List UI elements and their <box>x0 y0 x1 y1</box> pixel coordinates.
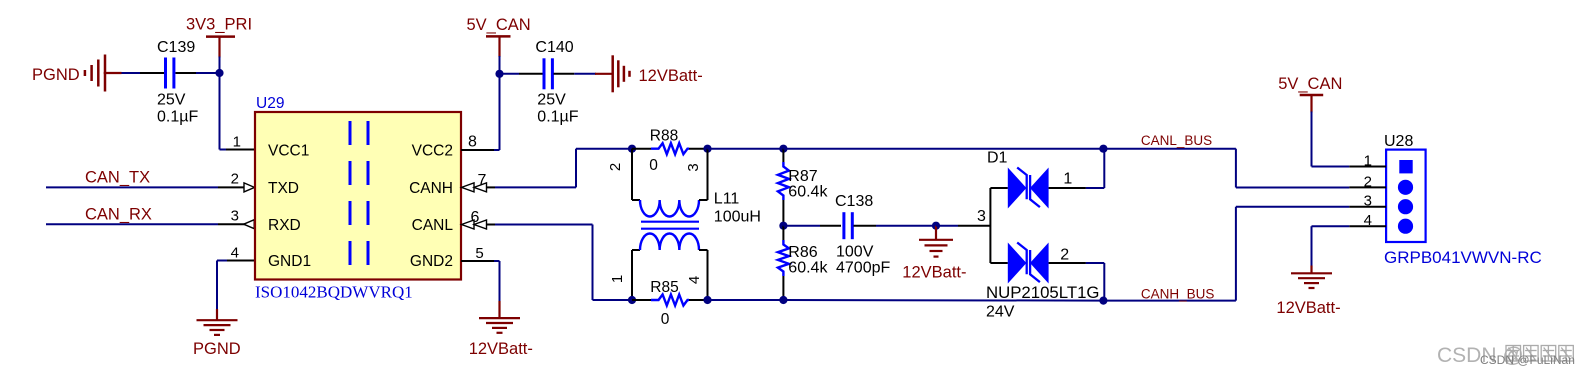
svg-text:C140: C140 <box>535 39 573 56</box>
pin name GND1 <box>268 253 311 270</box>
svg-text:3: 3 <box>977 208 986 225</box>
op-amp U29 body (ISO1042 transceiver) <box>255 112 461 280</box>
net label 3V3_PRI <box>186 16 252 34</box>
junction node A <box>215 69 223 77</box>
label C138 <box>835 193 873 210</box>
pin name RXD <box>268 217 301 234</box>
svg-text:2: 2 <box>231 171 239 188</box>
value D1 24V <box>986 304 1015 321</box>
svg-text:2: 2 <box>607 163 624 171</box>
connector U28 body <box>1386 150 1426 242</box>
pin 2 input arrow <box>244 183 255 192</box>
pin name GND2 <box>410 253 453 270</box>
wire GND2 pin 5 to ground <box>461 261 500 318</box>
label R87 <box>788 168 817 185</box>
wire mid node to C138 <box>783 225 841 227</box>
pin number 1 (U29 VCC1) <box>233 134 241 151</box>
value R87 60.4k <box>788 184 828 201</box>
net label 12VBatt- (under GND2) <box>469 340 533 358</box>
pin name CANL <box>412 217 454 234</box>
U28 pin 2 stub <box>1349 186 1386 188</box>
value R85 0 <box>661 311 670 328</box>
pin number 5 (U29 GND2) <box>475 245 483 262</box>
pin number 1 (U28) <box>1364 153 1372 170</box>
wire node B down to pin 8 VCC2 <box>461 74 500 150</box>
svg-text:CAN_TX: CAN_TX <box>85 169 150 187</box>
wire net CANL_BUS <box>783 149 1349 188</box>
inductor L11 common-mode choke <box>632 149 708 300</box>
svg-text:12VBatt-: 12VBatt- <box>1276 299 1340 317</box>
wire node A to pin 1 VCC1 <box>220 73 256 150</box>
svg-text:12VBatt-: 12VBatt- <box>639 67 703 85</box>
capacitor C138 <box>844 212 852 239</box>
junction choke pin 3 node <box>703 145 711 153</box>
pin name TXD <box>268 180 299 197</box>
U28 pin 2 contact <box>1398 180 1413 195</box>
power ground symbol PGND (left) <box>85 55 122 92</box>
svg-text:25V: 25V <box>537 91 566 108</box>
pin 6 bidirectional arrows <box>462 220 487 229</box>
wire C138 to ground node <box>854 225 937 227</box>
wire node B to C140 <box>500 73 544 75</box>
pin 7 bidirectional arrows <box>462 183 487 192</box>
svg-text:GRPB041VWVN-RC: GRPB041VWVN-RC <box>1384 248 1542 267</box>
svg-text:0: 0 <box>661 311 670 328</box>
pin number 6 (U29 CANL) <box>471 209 480 226</box>
value L11 100uH <box>714 209 761 226</box>
transistor D1 common lead <box>989 188 991 263</box>
net label CAN_RX <box>85 206 152 224</box>
svg-text:C139: C139 <box>157 39 195 56</box>
pin number 3 (D1) <box>977 208 986 225</box>
svg-text:CSDN @FuLiNan: CSDN @FuLiNan <box>1480 353 1575 367</box>
wire C140 to 12VBatt- <box>554 73 613 75</box>
U28 pin 1 contact (square) <box>1399 160 1412 173</box>
net label CANL_BUS <box>1141 133 1212 148</box>
part name NUP2105LT1G <box>986 283 1100 302</box>
pin number 7 (U29 CANH) <box>478 172 487 189</box>
wire CANL to choke bottom row <box>487 225 632 301</box>
value C138 4700pF <box>836 260 890 277</box>
svg-text:VCC1: VCC1 <box>268 143 309 160</box>
net label 12VBatt- (top) <box>639 67 703 85</box>
svg-text:R85: R85 <box>650 279 678 296</box>
wire net CAN_RX <box>46 223 245 225</box>
wire U28 pin 4 to ground <box>1312 226 1350 273</box>
svg-text:8: 8 <box>468 134 477 151</box>
power symbol 5V_CAN (right) <box>1300 95 1324 113</box>
U28 pin 4 stub <box>1349 225 1386 227</box>
svg-text:CANH_BUS: CANH_BUS <box>1141 287 1215 302</box>
svg-text:3V3_PRI: 3V3_PRI <box>186 16 252 34</box>
svg-text:1: 1 <box>609 275 626 283</box>
pin number 2 (D1) <box>1060 247 1069 264</box>
svg-text:24V: 24V <box>986 304 1015 321</box>
svg-text:U29: U29 <box>256 95 284 112</box>
junction R86 bottom <box>779 296 787 304</box>
designator U29 <box>256 95 284 112</box>
pin name VCC2 <box>412 143 453 160</box>
U28 pin 3 stub <box>1349 206 1386 208</box>
value R86 60.4k <box>788 260 828 277</box>
pin number 1 (D1) <box>1063 171 1072 188</box>
pin number 4 (U28) <box>1364 212 1372 229</box>
net label 12VBatt- (mid) <box>902 264 966 282</box>
junction ground tap node <box>932 222 940 230</box>
pin number 4 (U29 GND1) <box>231 245 239 262</box>
wire D1 pin 1 to CANL_BUS <box>1086 149 1104 188</box>
svg-text:60.4k: 60.4k <box>788 184 828 201</box>
svg-text:CANH: CANH <box>409 180 453 197</box>
net label PGND (left) <box>32 66 80 84</box>
svg-text:4: 4 <box>231 245 239 262</box>
wire 5V_CAN to node B <box>499 56 501 74</box>
label R85 <box>650 279 678 296</box>
ground symbol 12VBatt- (right) <box>1291 273 1332 288</box>
svg-text:TXD: TXD <box>268 180 299 197</box>
svg-text:1: 1 <box>1063 171 1072 188</box>
svg-text:R87: R87 <box>788 168 817 185</box>
svg-text:R86: R86 <box>788 244 817 261</box>
wire ground node to D1 pin 3 <box>936 225 990 227</box>
pin number 3 (U28) <box>1364 193 1372 210</box>
wire C139 to node A <box>176 72 220 74</box>
part name GRPB041VWVN-RC <box>1384 248 1542 267</box>
net label 12VBatt- (right) <box>1276 299 1340 317</box>
designator U28 <box>1384 133 1413 150</box>
svg-text:4700pF: 4700pF <box>836 260 890 277</box>
wire top row choke to R87 <box>708 148 784 150</box>
junction choke pin 2 node <box>628 145 636 153</box>
pin number 2 (L11) <box>607 163 624 171</box>
svg-text:0.1µF: 0.1µF <box>537 108 578 125</box>
pin number 3 (U29 RXD) <box>231 208 239 225</box>
ground symbol PGND (bottom) <box>197 320 238 335</box>
wire PGND to C139 <box>122 72 165 74</box>
svg-text:R88: R88 <box>650 128 678 145</box>
net label 5V_CAN (right) <box>1278 75 1342 93</box>
resistor R87 <box>778 149 789 226</box>
svg-text:3: 3 <box>1364 193 1372 210</box>
wire 3V3_PRI down to node A <box>219 57 221 74</box>
resistor R85 <box>632 295 708 306</box>
value R88 0 <box>649 157 658 174</box>
svg-text:25V: 25V <box>157 91 186 108</box>
svg-text:4: 4 <box>1364 212 1372 229</box>
svg-text:PGND: PGND <box>32 66 80 84</box>
svg-text:3: 3 <box>685 163 702 171</box>
junction choke pin 1 node <box>628 296 636 304</box>
value C139 0.1uF <box>157 108 198 125</box>
wire 5V_CAN to U28 pin 1 <box>1312 112 1350 167</box>
svg-text:60.4k: 60.4k <box>788 260 828 277</box>
pin number 2 (U28) <box>1364 173 1372 190</box>
junction CANL_BUS node <box>1099 145 1107 153</box>
label C139 <box>157 39 195 56</box>
svg-text:4: 4 <box>686 276 703 284</box>
svg-text:1: 1 <box>233 134 241 151</box>
junction R87 top <box>779 145 787 153</box>
pin name VCC1 <box>268 143 309 160</box>
junction node B <box>495 70 503 78</box>
value C140 25V <box>537 91 566 108</box>
svg-text:100V: 100V <box>836 244 874 261</box>
svg-text:1: 1 <box>1364 153 1372 170</box>
pin 3 output arrow <box>244 220 255 229</box>
svg-text:RXD: RXD <box>268 217 301 234</box>
power symbol 3V3_PRI <box>206 37 235 58</box>
pin number 3 (L11) <box>685 163 702 171</box>
svg-text:12VBatt-: 12VBatt- <box>469 340 533 358</box>
diode D1 bottom TVS <box>990 243 1086 284</box>
junction CANH_BUS node <box>1099 297 1107 305</box>
isolation barrier dashed lines <box>350 121 368 278</box>
svg-text:U28: U28 <box>1384 133 1413 150</box>
label C140 <box>535 39 573 56</box>
label L11 <box>714 191 740 208</box>
svg-text:2: 2 <box>1060 247 1069 264</box>
pin number 8 (U29 VCC2) <box>468 134 477 151</box>
wire GND1 pin 4 to ground <box>217 261 255 321</box>
label R88 <box>650 128 678 145</box>
label D1 <box>987 150 1008 167</box>
svg-text:D1: D1 <box>987 150 1008 167</box>
part name ISO1042BQDWVRQ1 <box>255 283 413 302</box>
pin number 4 (L11) <box>686 276 703 284</box>
pin number 2 (U29 TXD) <box>231 171 239 188</box>
wire net CAN_TX <box>46 186 244 188</box>
value C138 100V <box>836 244 874 261</box>
wire bottom row choke to R86 <box>708 299 784 301</box>
svg-text:0.1µF: 0.1µF <box>157 108 198 125</box>
U28 pin 4 contact <box>1398 219 1413 234</box>
svg-text:L11: L11 <box>714 191 740 208</box>
watermark CSDN <box>1437 344 1575 367</box>
ground symbol 12VBatt- (under GND2) <box>479 318 520 333</box>
svg-text:ISO1042BQDWVRQ1: ISO1042BQDWVRQ1 <box>255 283 413 302</box>
ground symbol 12VBatt- (mid) <box>919 226 953 257</box>
U28 pin 3 contact <box>1398 199 1413 214</box>
svg-text:VCC2: VCC2 <box>412 143 453 160</box>
resistor R86 <box>778 226 789 300</box>
svg-text:NUP2105LT1G: NUP2105LT1G <box>986 283 1100 302</box>
svg-text:GND2: GND2 <box>410 253 453 270</box>
pin name CANH <box>409 180 453 197</box>
U28 pin 1 stub <box>1349 166 1386 168</box>
svg-text:C138: C138 <box>835 193 873 210</box>
svg-text:CANL: CANL <box>412 217 454 234</box>
value C139 25V <box>157 91 186 108</box>
power ground symbol 12VBatt- (top) <box>613 55 630 92</box>
svg-text:CAN_RX: CAN_RX <box>85 206 152 224</box>
svg-text:2: 2 <box>1364 173 1372 190</box>
junction choke pin 4 node <box>703 296 711 304</box>
pin number 1 (L11) <box>609 275 626 283</box>
net label CAN_TX <box>85 169 150 187</box>
resistor R88 <box>632 143 708 154</box>
capacitor C139 <box>166 58 174 89</box>
wire D1 pin 2 to CANH_BUS <box>1086 263 1104 301</box>
value C140 0.1uF <box>537 108 578 125</box>
svg-text:3: 3 <box>231 208 239 225</box>
svg-text:CANL_BUS: CANL_BUS <box>1141 133 1212 148</box>
wire net CANH_BUS <box>783 207 1349 301</box>
net label PGND (bottom) <box>193 340 241 358</box>
svg-text:0: 0 <box>649 157 658 174</box>
svg-text:PGND: PGND <box>193 340 241 358</box>
power symbol 5V_CAN (top) <box>486 36 511 57</box>
wire CANH to choke top row <box>487 149 632 188</box>
svg-text:5V_CAN: 5V_CAN <box>1278 75 1342 93</box>
label R86 <box>788 244 817 261</box>
svg-text:GND1: GND1 <box>268 253 311 270</box>
net label CANH_BUS <box>1141 287 1215 302</box>
svg-text:5: 5 <box>475 245 483 262</box>
capacitor C140 <box>544 58 552 89</box>
junction R87/R86 mid node <box>779 222 787 230</box>
svg-text:5V_CAN: 5V_CAN <box>467 16 531 34</box>
net label 5V_CAN (top) <box>467 16 531 34</box>
diode D1 top TVS <box>990 168 1086 209</box>
svg-text:100uH: 100uH <box>714 209 761 226</box>
svg-text:12VBatt-: 12VBatt- <box>902 264 966 282</box>
